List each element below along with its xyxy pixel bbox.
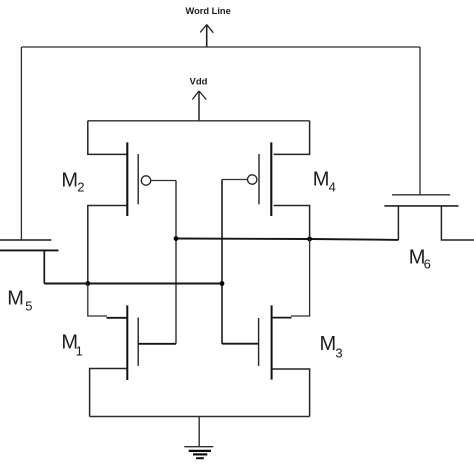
wire node A horizontal (M5 to cross wire): [44, 283, 222, 285]
junction node B left: [174, 236, 179, 241]
transistor M3: [259, 305, 272, 379]
wire M4 gate to node A vertical: [222, 179, 248, 181]
junction node A left: [85, 281, 90, 286]
Vdd arrow: [192, 91, 206, 121]
transistor M4: [248, 142, 272, 216]
wire M2 source (Vdd rail to channel): [88, 121, 127, 155]
svg-text:M: M: [7, 288, 24, 310]
wire word line right drop to M6 gate: [419, 47, 421, 195]
svg-text:Word Line: Word Line: [186, 6, 231, 16]
wire M3 source to ground rail: [272, 369, 310, 417]
svg-text:M: M: [320, 333, 337, 355]
svg-text:Vdd: Vdd: [190, 77, 208, 88]
wire M2 gate to node B: [151, 180, 176, 182]
junction node A right: [220, 281, 225, 286]
wire M4 source (Vdd rail to channel): [274, 121, 310, 155]
svg-text:1: 1: [76, 344, 83, 359]
wire M1 source to ground rail: [90, 369, 128, 417]
wire Vdd rail: [88, 120, 310, 122]
wire ground rail: [90, 416, 310, 418]
wire word line left drop to M5 gate: [20, 47, 22, 239]
transistor M5 (access, left edge): [0, 240, 59, 250]
svg-text:M: M: [61, 170, 78, 192]
svg-text:5: 5: [25, 298, 32, 313]
transistor M6 (access, right): [384, 195, 458, 206]
wire M6 left terminal to node B: [397, 206, 399, 240]
transistor M1: [127, 305, 138, 380]
wire M3 drain from node B: [291, 239, 310, 316]
svg-text:M: M: [313, 169, 330, 191]
word line arrow: [200, 25, 213, 48]
wire M5 right terminal to node A: [43, 250, 45, 283]
transistor M2: [127, 142, 150, 216]
ground: [184, 447, 213, 459]
junction node B right: [307, 237, 312, 242]
wire node B horizontal (to M6 source): [176, 239, 398, 240]
wire cross-coupling vertical node B (M2 gate / M1 gate): [175, 181, 177, 344]
wire M4 drain down to node B: [274, 206, 310, 240]
svg-text:3: 3: [335, 345, 342, 360]
wire ground stem: [198, 417, 200, 447]
wire M6 right terminal to bit line edge: [441, 206, 474, 240]
svg-text:6: 6: [424, 257, 431, 272]
wire word line rail: [21, 46, 420, 48]
wire M2 drain down to node A: [88, 206, 127, 284]
svg-text:4: 4: [329, 179, 336, 194]
wire cross-coupling vertical node A (M4 gate / M3 gate): [221, 180, 223, 344]
wire M1 drain from node A: [88, 284, 107, 317]
wire M3 gate to node A vertical: [222, 343, 259, 345]
wire M1 gate to node B vertical: [138, 343, 176, 345]
svg-text:2: 2: [77, 179, 84, 194]
